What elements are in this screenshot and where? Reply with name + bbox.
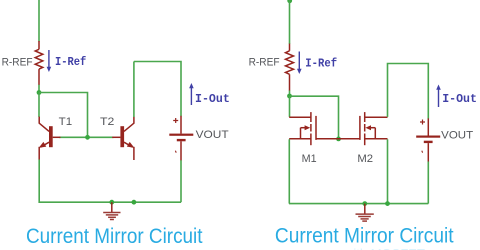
wire: M2 drain loop to battery (right) — [388, 64, 429, 119]
svg-text:R-REF: R-REF — [2, 56, 33, 68]
wire: output loop top and right side (left) — [134, 62, 181, 117]
svg-text:I-Out: I-Out — [195, 92, 230, 106]
battery V2 (right) — [416, 118, 440, 161]
wire: T1 base to T2 base (left) — [59, 136, 114, 138]
wire: T2 collector up to loop (left) — [133, 62, 135, 118]
wire: supply feed into R-REF (left) — [38, 0, 40, 42]
node B: drain/reference junction (right) — [287, 94, 292, 99]
current arrow I-Ref (right) — [297, 52, 302, 75]
svg-text:Current Mirror Circuit: Current Mirror Circuit — [275, 224, 454, 248]
node: supply junction at top edge (right) — [287, 0, 292, 3]
wire: node A down to T1 collector (left) — [38, 93, 40, 118]
wire: M2 source down to rail (right) — [387, 139, 389, 203]
wire: R-REF to node B (right) — [289, 91, 291, 97]
wire: battery V2 to ground rail (right) — [427, 162, 429, 204]
node: gate junction (right) — [336, 137, 341, 142]
transistor T2 — [112, 117, 134, 160]
svg-text:M2: M2 — [357, 153, 373, 165]
svg-text:VOUT: VOUT — [441, 129, 473, 141]
node: base junction (left) — [85, 135, 90, 140]
wire: ground rail (right) — [289, 203, 428, 205]
wire: battery V1 to ground rail (left) — [180, 160, 182, 202]
battery V1 (left) — [169, 116, 193, 161]
svg-text:R-REF: R-REF — [249, 57, 280, 69]
current arrow I-Out (left) — [189, 83, 194, 105]
wire: supply feed into R-REF (right) — [289, 0, 291, 44]
wire: R-REF to node A (left) — [38, 85, 40, 93]
wire: T1 emitter to ground rail (left) — [38, 160, 40, 204]
ground symbol (right) — [356, 204, 374, 222]
svg-text:I-Ref: I-Ref — [55, 55, 86, 69]
ground symbol (left) — [103, 202, 120, 219]
svg-text:I-Out: I-Out — [442, 92, 477, 106]
node A: collector/reference junction (left) — [37, 90, 42, 95]
transistor M1 — [289, 112, 338, 145]
current arrow I-Out (right) — [436, 85, 441, 108]
resistor R-REF (left) — [35, 41, 43, 85]
node: ground junction (left) — [109, 200, 114, 205]
wire: node B to gate bus (right) — [290, 96, 339, 139]
svg-text:I-Ref: I-Ref — [305, 57, 337, 71]
node: T2 emitter rail junction (left) — [132, 200, 137, 205]
node: ground junction (right) — [362, 201, 367, 206]
current arrow I-Ref (left) — [47, 50, 52, 72]
resistor R-REF (right) — [286, 44, 294, 91]
wire: node B down to M1 drain (right) — [289, 96, 291, 117]
svg-text:M1: M1 — [302, 153, 317, 165]
transistor M2 — [339, 112, 388, 145]
svg-text:T2: T2 — [100, 116, 114, 128]
node: M2 source rail junction (right) — [385, 201, 390, 206]
wire: ground rail (left) — [39, 201, 182, 203]
svg-text:T1: T1 — [59, 116, 72, 128]
svg-text:VOUT: VOUT — [196, 129, 229, 141]
svg-text:with MOSFET: with MOSFET — [343, 246, 425, 250]
svg-text:Current Mirror Circuit: Current Mirror Circuit — [26, 224, 203, 248]
wire: node A to base bus (left) — [39, 93, 88, 138]
wire: M1 source to ground rail (right) — [288, 139, 290, 203]
transistor T1 — [39, 117, 61, 160]
